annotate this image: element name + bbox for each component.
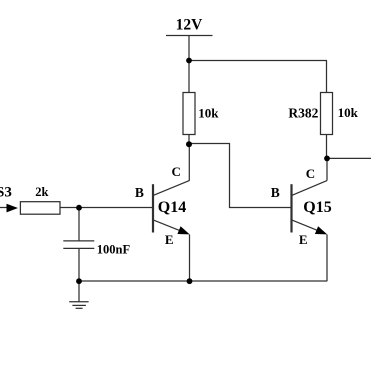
- svg-text:C: C: [172, 164, 181, 179]
- wire: node down to capacitor top plate: [78, 208, 80, 241]
- transistor Q14 emitter arrowhead: [177, 226, 189, 234]
- svg-text:R382: R382: [288, 106, 318, 121]
- transistor Q15 collector diagonal: [292, 181, 327, 196]
- junction dot: Q14 collector node: [186, 141, 192, 147]
- wire: Q15 emitter vertical: [326, 235, 328, 282]
- svg-text:B: B: [271, 185, 280, 200]
- svg-text:Q15: Q15: [303, 199, 331, 216]
- power rail 12V bar: [166, 35, 213, 37]
- input arrow: [7, 204, 19, 213]
- svg-text:E: E: [299, 232, 308, 247]
- wire: down to ground: [78, 281, 80, 302]
- resistor 2k body: [20, 202, 60, 215]
- wire: top rail horizontal: [189, 60, 327, 62]
- svg-text:10k: 10k: [338, 105, 359, 120]
- transistor Q14 collector diagonal: [154, 181, 190, 196]
- wire: Q15 collector vertical: [326, 158, 328, 180]
- transistor Q15 emitter diagonal: [292, 220, 324, 233]
- resistor R382 body (right 10k): [321, 93, 333, 135]
- junction dot: input / capacitor node: [76, 205, 82, 211]
- transistor Q14 base bar: [152, 184, 154, 232]
- ground symbol: [69, 301, 88, 303]
- wire: Q14 emitter vertical: [189, 235, 191, 282]
- svg-text:B: B: [135, 185, 144, 200]
- svg-text:E: E: [165, 232, 174, 247]
- wire: 2k resistor to Q14 base: [60, 207, 152, 209]
- wire: below right resistor to output node: [326, 135, 328, 159]
- resistor R1 body (left 10k): [183, 93, 195, 135]
- junction dot: 12V rail: [186, 58, 192, 64]
- junction dot: Q15 collector / output node: [324, 156, 330, 162]
- wire: right branch down from rail: [326, 61, 328, 93]
- svg-text:12V: 12V: [176, 17, 204, 34]
- junction dot: bottom rail / ground node: [76, 278, 82, 284]
- wire: output line to right edge: [327, 157, 371, 159]
- capacitor C1 bottom plate: [63, 247, 94, 249]
- wire: 12V bar down to top rail: [188, 36, 190, 93]
- svg-text:10k: 10k: [198, 105, 219, 120]
- svg-text:100nF: 100nF: [97, 242, 131, 256]
- svg-text:Q14: Q14: [158, 199, 186, 216]
- svg-text:S3: S3: [0, 185, 12, 201]
- transistor Q15 emitter arrowhead: [315, 226, 327, 234]
- junction dot: Q14 emitter on bottom rail: [187, 278, 193, 284]
- capacitor C1 top plate: [63, 240, 94, 242]
- transistor Q15 base bar: [290, 184, 292, 232]
- wire: jog from Q14 collector node to Q15 base: [189, 144, 291, 208]
- wire: input line at left edge: [0, 207, 8, 209]
- wire: capacitor down to bottom rail: [78, 248, 80, 281]
- transistor Q14 emitter diagonal: [154, 220, 187, 233]
- wire: Q14 collector vertical: [188, 144, 190, 181]
- svg-text:2k: 2k: [35, 185, 48, 199]
- wire: bottom rail: [79, 280, 327, 282]
- wire: below left resistor to node: [188, 135, 190, 145]
- svg-text:C: C: [306, 166, 315, 181]
